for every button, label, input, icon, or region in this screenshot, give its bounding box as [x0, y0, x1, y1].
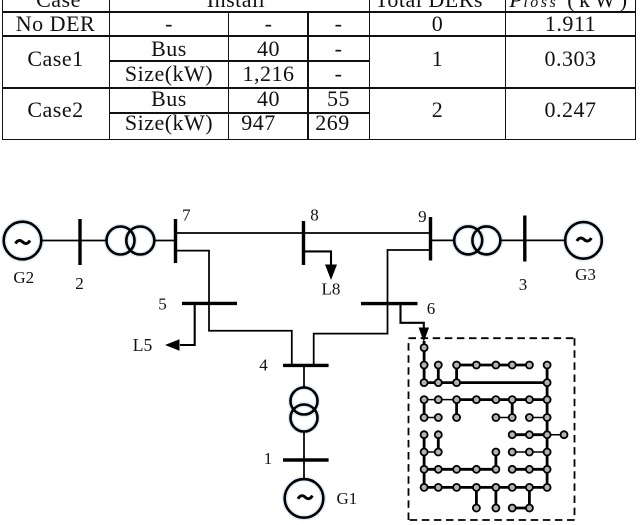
- svg-text:G1: G1: [337, 489, 358, 508]
- svg-text:9: 9: [418, 207, 427, 226]
- svg-text:8: 8: [310, 206, 319, 225]
- svg-text:5: 5: [158, 295, 167, 314]
- svg-text:L5: L5: [133, 335, 153, 355]
- svg-text:4: 4: [259, 356, 268, 375]
- svg-text:3: 3: [519, 275, 528, 294]
- svg-text:1: 1: [264, 449, 273, 468]
- svg-text:2: 2: [75, 274, 84, 293]
- svg-text:G3: G3: [575, 265, 596, 284]
- svg-text:L8: L8: [322, 280, 341, 299]
- svg-text:6: 6: [427, 299, 436, 318]
- svg-text:G2: G2: [13, 268, 34, 287]
- svg-text:7: 7: [182, 206, 191, 225]
